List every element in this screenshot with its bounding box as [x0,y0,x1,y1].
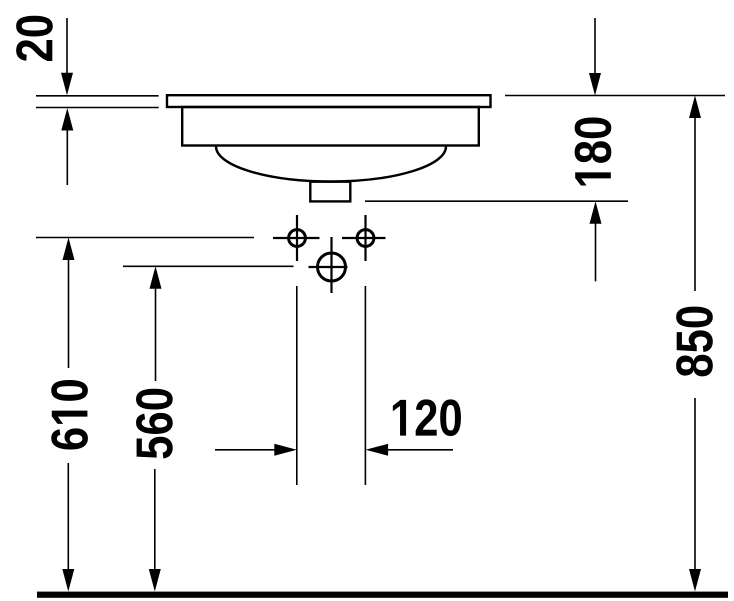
dim 120 left shaft [215,449,277,451]
dim 560 lower shaft [154,469,156,572]
large circle crosshair horizontal [309,266,348,268]
large circle crosshair vertical [330,237,332,293]
dim 20 lower shaft [66,128,68,185]
dim 120 right arrowhead [366,444,389,456]
dim 850 lower shaft [694,398,696,572]
reference line 560 level [123,265,294,267]
right circle crosshair horizontal [342,237,386,239]
label 610 [51,380,88,449]
dim 560 upper arrowhead [150,266,162,289]
countertop line right [505,95,725,97]
dim 610 upper arrowhead [63,238,75,261]
faucet hole right circle [357,230,374,247]
dim 610 upper shaft [68,258,70,369]
dim 850 lower arrowhead [689,569,701,592]
label 120 [393,399,461,436]
reference line 610 level [36,237,254,239]
faucet hole left circle [289,230,306,247]
label 20 [16,16,53,61]
left circle crosshair horizontal [273,237,320,239]
extension line 120 right [364,286,366,485]
right circle crosshair vertical [364,215,366,261]
dim 20 upper shaft [66,18,68,76]
dim 180 lower arrowhead [590,201,602,224]
label 560 [136,389,173,459]
dim 120 left arrowhead [274,444,297,456]
label 180 [575,117,612,185]
drain level line right [365,200,628,202]
countertop bottom line left [36,107,159,109]
countertop top line left [36,95,159,97]
center large circle [318,253,346,281]
dim 560 lower arrowhead [149,569,161,592]
label 850 [676,307,713,377]
dim 180 lower shaft [595,221,597,281]
dim 850 upper arrowhead [689,96,701,119]
basin rim [167,95,491,107]
dim 20 lower arrowhead [61,108,73,131]
basin body [182,107,479,146]
floor line [37,592,728,598]
basin bowl [216,147,446,182]
dim 610 lower arrowhead [62,569,74,592]
dim 180 upper shaft [594,18,596,76]
dim 20 upper arrowhead [61,73,73,96]
dim 180 upper arrowhead [589,73,601,96]
dim 560 upper shaft [155,286,157,381]
drain box [310,182,350,202]
left circle crosshair vertical [296,215,298,261]
dim 850 upper shaft [694,116,696,292]
dim 610 lower shaft [67,463,69,572]
extension line 120 left [296,286,298,485]
dim 120 right shaft [386,449,453,451]
